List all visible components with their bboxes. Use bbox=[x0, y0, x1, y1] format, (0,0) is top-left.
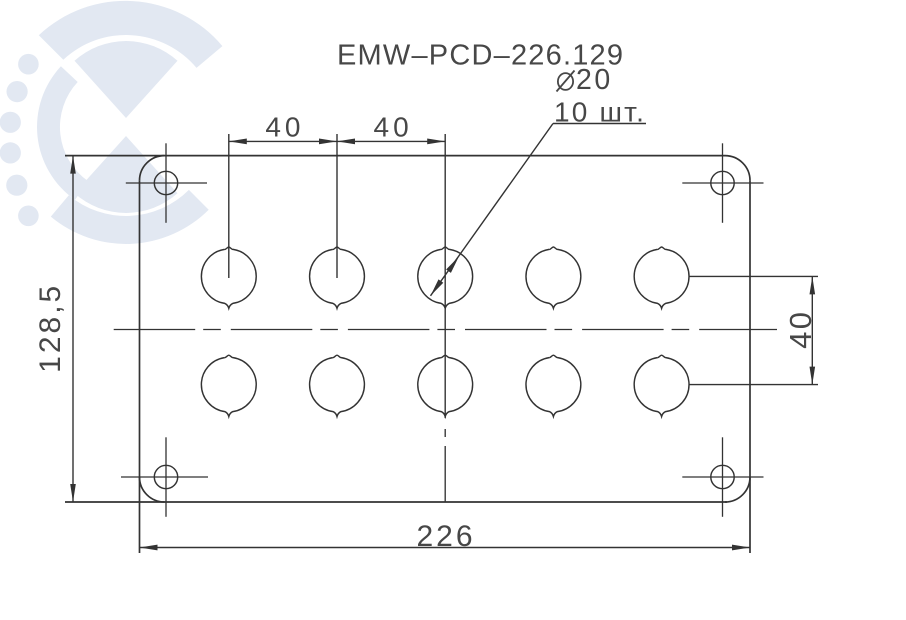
left dimension 128,5 bbox=[72, 156, 74, 502]
horizontal centerline bbox=[114, 329, 777, 331]
watermark dot 5 bbox=[6, 175, 27, 196]
keyed hole row 2 col 2 (Ø20) bbox=[310, 355, 365, 416]
svg-text:226: 226 bbox=[416, 520, 475, 553]
keyed hole row 2 col 1 (Ø20) bbox=[201, 355, 256, 416]
keyed hole row 2 col 5 (Ø20) bbox=[634, 355, 689, 416]
watermark bottom arc band bbox=[51, 190, 209, 244]
leader arrow upper (at circle edge) bbox=[446, 257, 459, 273]
watermark dot 6 bbox=[18, 206, 39, 227]
leader line to hole bbox=[431, 124, 647, 296]
top dim arrows bbox=[229, 139, 445, 145]
watermark dot 3 bbox=[0, 112, 21, 133]
leader arrow lower (points to hole) bbox=[431, 279, 444, 295]
svg-text:40: 40 bbox=[783, 309, 818, 348]
top dimension line bbox=[229, 140, 445, 142]
keyed hole row 2 col 3 (Ø20) bbox=[418, 355, 473, 416]
vertical centerline below middle hole bbox=[444, 418, 446, 503]
plate outline bbox=[65, 156, 750, 553]
watermark dot 1 bbox=[18, 54, 39, 75]
keyed hole row 1 col 3 (Ø20) bbox=[418, 247, 473, 308]
watermark logo bbox=[0, 1, 222, 244]
bottom dimension 226 bbox=[140, 547, 751, 549]
svg-text:40: 40 bbox=[374, 111, 413, 142]
keyed hole row 1 col 2 (Ø20) bbox=[310, 247, 365, 308]
watermark dot 2 bbox=[7, 81, 28, 102]
keyed hole row 1 col 1 (Ø20) bbox=[201, 247, 256, 308]
corner hole H2 (top-right) bbox=[682, 143, 763, 223]
corner hole H4 (bottom-right) bbox=[682, 437, 763, 517]
keyed hole row 1 col 4 (Ø20) bbox=[526, 247, 581, 308]
svg-text:10 шт.: 10 шт. bbox=[554, 96, 646, 127]
keyed hole row 1 col 5 (Ø20) bbox=[634, 247, 689, 308]
watermark dot 4 bbox=[0, 142, 21, 163]
diameter symbol bbox=[557, 71, 575, 92]
watermark bottom wedge bbox=[75, 136, 178, 213]
corner hole H1 (top-left) bbox=[126, 143, 207, 223]
watermark top arc band bbox=[39, 1, 223, 68]
watermark top wedge bbox=[75, 41, 178, 118]
watermark left inner ring bbox=[37, 66, 88, 200]
svg-text:40: 40 bbox=[265, 111, 304, 142]
right dimension 40 bbox=[689, 276, 818, 384]
keyed holes row 1 and row 2 bbox=[201, 247, 689, 417]
top dimension 40-40: extension lines bbox=[229, 134, 445, 418]
svg-text:128,5: 128,5 bbox=[34, 283, 67, 373]
svg-text:20: 20 bbox=[576, 64, 613, 96]
corner hole H3 (bottom-left) bbox=[121, 437, 208, 517]
keyed hole row 2 col 4 (Ø20) bbox=[526, 355, 581, 416]
